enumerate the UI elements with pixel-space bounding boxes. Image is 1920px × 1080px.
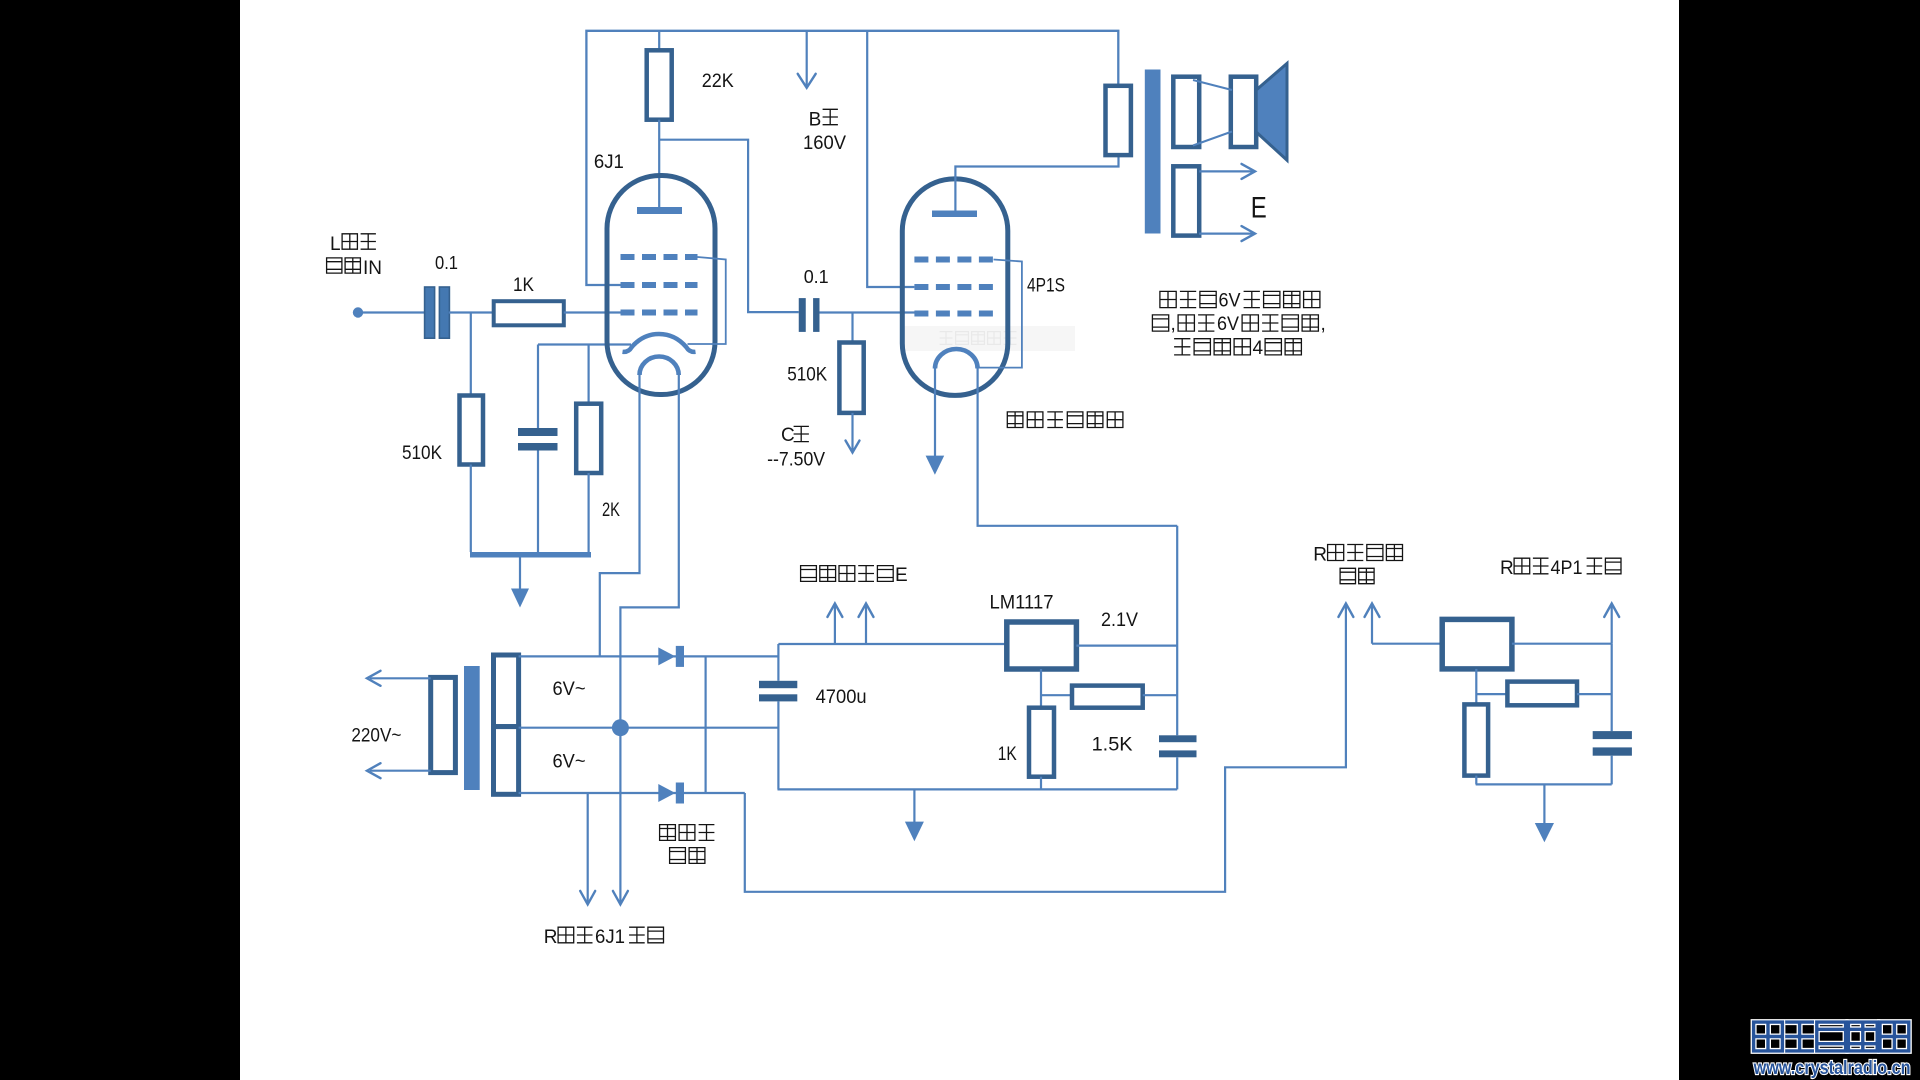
svg-text:2.1V: 2.1V [1101,610,1138,631]
4P1S grid dashes row3 [914,311,993,317]
svg-text:4700u: 4700u [816,687,867,708]
wire anode tap to coupling cap [659,140,799,312]
svg-text:E: E [895,565,908,586]
arrow heater tap from centre dot (chevron) [613,891,628,905]
svg-text:1K: 1K [998,744,1017,765]
svg-text:6V~: 6V~ [553,679,586,700]
wire heater tap arrow (from bottom winding) [587,793,589,904]
capacitor 0.1 (interstage coupling) [799,298,806,332]
wire 2.1V vertical rail [1176,526,1178,736]
capacitor R-channel filter [1593,731,1632,739]
4P1S anode plate bar [932,211,977,218]
6J1 anode plate bar [637,207,682,214]
wire 4P1S screen grid feed from B+ rail [867,31,914,287]
speaker cone [1256,63,1287,160]
wire +V rail to LM1117 [778,643,1006,645]
wire 4P1S heater left leg to ground arrow (filled) [934,369,936,457]
svg-text:6V: 6V [1217,314,1239,335]
wire secondary to speaker top [1193,80,1232,90]
node centre tap junction dot [612,719,629,736]
tube 4P1S envelope [902,179,1008,396]
wire cap to 1K with tee to 510K [449,311,494,313]
svg-text:,: , [1321,314,1326,335]
wire cathode node [538,343,631,345]
ground arrow (filled) [519,558,521,590]
note 使用双6V电源变压器,两个6V绕组独立，喇叭阻抗4欧姆 [1160,291,1176,307]
faint screenshot watermark strip [903,326,1075,351]
4P1S grid dashes row1 [914,257,993,263]
capacitor cathode bypass [537,345,539,429]
svg-text:R: R [1500,558,1514,579]
label 接消磁绕组E [801,566,817,582]
output transformer secondary winding 2 (damping E) [1173,166,1199,235]
wire long run to R-channel degauss [745,605,1346,892]
wire 6J1 heater left leg to 6V winding [600,375,640,656]
wire top winding to diode D1 [519,655,779,657]
output transformer core bar [1145,70,1161,234]
label 两段灯丝并联 [1007,412,1023,428]
diode D2 (schottky) [658,784,675,802]
wire LM1117 adj pin [1040,669,1042,708]
resistor 22K (plate load) [658,31,660,51]
svg-text:E: E [1251,191,1267,224]
arrow mains top (left chevron) [370,677,431,679]
6J1 cathode arc [623,334,696,352]
output transformer primary winding [1106,86,1131,155]
6J1 heater arc [640,357,679,375]
wire R regulator output [1512,643,1612,645]
svg-text:4P1: 4P1 [1551,558,1583,579]
arrow to degauss winding E no.2 (up chevron) [865,605,867,644]
arrow R degauss no.2 (up chevron) [1371,605,1373,644]
svg-text:6V~: 6V~ [553,752,586,773]
svg-text:220V~: 220V~ [351,726,401,747]
arrow R degauss no.1 (up chevron) [1338,604,1353,618]
wire bottom winding to diode D2 [519,792,745,794]
transformer secondary winding 6V top [494,655,519,727]
diode D1 (schottky) [658,647,675,665]
arrow B+ supply (down chevron) [806,31,808,86]
svg-text:6J1: 6J1 [595,927,625,948]
svg-text:R: R [1313,545,1327,566]
svg-text:1K: 1K [513,275,534,296]
wire 4P1S suppressor tie [979,260,1022,368]
transformer secondary winding 6V bottom [494,727,519,795]
watermark logo 矿石收音机 [1754,1022,1909,1051]
mains transformer primary winding [431,677,456,772]
svg-text:IN: IN [363,258,382,279]
svg-text:0.1: 0.1 [435,253,458,273]
wire B+ rail (160V) with drop to 6J1 screen grid [586,31,1118,285]
svg-text:4: 4 [1253,338,1264,359]
resistor R-channel vertical [1464,704,1488,775]
wire PSU ground rail [778,788,1178,790]
arrow secondary2 top (right chevron) [1199,170,1253,172]
svg-text:C: C [781,425,795,446]
svg-text:22K: 22K [702,71,734,92]
right letterbox bar [1679,0,1920,1080]
wire LM1117 output to 2.1V rail [1076,644,1177,646]
wire R vertical rail [1611,644,1613,731]
svg-text:--7.50V: --7.50V [767,449,825,470]
4P1S grid dashes row2 [914,284,993,290]
svg-text:510K: 510K [402,443,442,464]
ground rail bar (L channel) [470,552,591,558]
ground arrow R-channel (filled) [1543,784,1545,823]
svg-text:,: , [1171,314,1176,335]
6J1 grid dashes row1 (suppressor) [621,254,698,260]
resistor 2K (cathode) [587,345,589,404]
resistor 1K (grid stopper) [494,301,564,325]
wire 4P1S heater right leg to 2.1V rail [978,369,1178,526]
svg-text:B: B [809,109,822,130]
regulator LM1117 [1007,622,1077,669]
tube 6J1 envelope [607,176,715,395]
wire R ground rail [1476,783,1612,785]
wire coupling cap to 4P1S control grid [820,311,915,313]
resistor 510K (grid leak) [470,313,472,396]
speaker driver body [1231,77,1256,147]
4P1S heater arc [935,349,978,369]
arrow R 4P1 heater (up chevron) [1611,605,1613,644]
svg-text:LM1117: LM1117 [990,592,1054,613]
wire 1K to 6J1 control grid [564,311,621,313]
capacitor output filter [1159,735,1197,742]
svg-text:6J1: 6J1 [594,152,624,173]
wire centre tap with junction [519,727,779,729]
node input terminal dot [353,307,363,317]
capacitor 4700u filter [777,644,779,681]
capacitor 0.1 (input coupling) [425,287,435,338]
output transformer secondary winding 1 (speaker) [1173,77,1199,147]
resistor 1.5K [1072,686,1143,708]
svg-text:2K: 2K [602,500,620,521]
wire secondary to speaker bottom [1193,132,1232,146]
wire 4P1S anode to output transformer primary [955,155,1118,211]
wire 6J1 suppressor tie to cathode [688,257,726,344]
arrow mains bottom (left chevron) [370,770,431,772]
ground arrow PSU (filled) [913,789,915,822]
svg-text:www.crystalradio.cn: www.crystalradio.cn [1753,1058,1911,1079]
arrow secondary2 bottom (right chevron) [1199,233,1253,235]
mains transformer core bar [464,666,480,790]
svg-text:6V: 6V [1219,291,1241,312]
wire input to coupling cap [362,311,425,313]
resistor 510K (4P1S grid leak, C bias) [851,313,853,343]
wire R regulator adj pin [1475,669,1477,705]
6J1 grid dashes row2 (screen) [621,282,698,288]
svg-text:L: L [330,234,341,255]
white canvas background [240,0,1680,1080]
wire 6J1 heater right leg to centre tap [620,375,678,904]
svg-text:1.5K: 1.5K [1092,734,1133,755]
arrow to degauss winding E no.1 (up chevron) [834,605,836,644]
left letterbox bar [0,0,240,1080]
svg-text:0.1: 0.1 [804,267,829,287]
regulator R-channel (unlabeled box) [1442,619,1512,669]
svg-text:160V: 160V [803,133,846,154]
wire diode cathode join vertical [704,656,706,793]
resistor 1K (adj divider) [1029,708,1054,777]
6J1 grid dashes row3 (control) [621,310,698,316]
svg-text:R: R [544,927,558,948]
svg-text:510K: 510K [787,365,827,386]
resistor R-channel horizontal [1507,682,1577,706]
wire to R heater regulator input [1372,643,1442,645]
svg-text:4P1S: 4P1S [1027,276,1065,297]
label 肖特基 整流 [660,825,676,841]
